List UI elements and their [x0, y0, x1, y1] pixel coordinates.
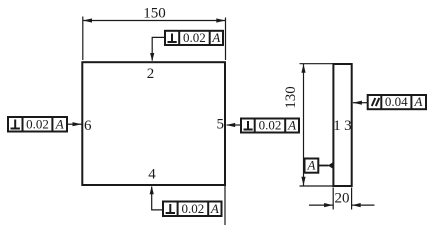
- svg-text:0.02: 0.02: [259, 118, 282, 133]
- narrow plate outline (right view): [333, 64, 351, 186]
- dimension 130 arrow bottom: [301, 177, 305, 186]
- svg-text:0.02: 0.02: [182, 201, 205, 216]
- perpendicularity symbol in FCF-left: [11, 120, 20, 129]
- svg-text:3: 3: [344, 118, 352, 134]
- svg-text:0.04: 0.04: [385, 94, 408, 109]
- parallelism symbol in FCF-parallel: [372, 98, 380, 106]
- extension line below square right edge: [224, 185, 226, 225]
- perpendicularity symbol in FCF-top: [168, 34, 177, 43]
- svg-text:A: A: [211, 30, 220, 45]
- dimension 130 top extension line: [300, 63, 334, 65]
- svg-text:5: 5: [217, 117, 225, 133]
- svg-text:A: A: [210, 201, 219, 216]
- dimension 20 right extension line: [351, 188, 353, 210]
- dimension 20 left line segment: [309, 204, 333, 206]
- dimension 130 arrow top: [301, 64, 305, 73]
- dimension 20 right arrow: [352, 203, 361, 207]
- dimension 150 extension line left: [82, 17, 84, 61]
- svg-text:A: A: [307, 158, 316, 173]
- feature control frame FCF-top (perpendicularity 0.02 A): [165, 31, 223, 45]
- leader arrow to narrow plate surface: [353, 101, 362, 105]
- dimension 130 bottom extension line: [300, 185, 334, 187]
- leader arrow to right surface: [226, 123, 235, 127]
- svg-text:A: A: [55, 117, 64, 132]
- datum feature symbol box A: [305, 159, 319, 173]
- perpendicularity symbol in FCF-right: [244, 121, 253, 130]
- svg-text:0.02: 0.02: [183, 30, 206, 45]
- leader from FCF-parallel to right surface of narrow plate: [353, 102, 368, 104]
- datum leader line: [318, 165, 328, 167]
- main square plate outline: [82, 62, 225, 185]
- feature control frame FCF-parallel (parallelism 0.04 A): [368, 95, 426, 109]
- feature control frame FCF-bottom (perpendicularity 0.02 A): [163, 202, 222, 217]
- leader from FCF-top to top surface: [152, 37, 165, 60]
- dimension 150 extension line right: [225, 18, 227, 61]
- svg-text:A: A: [287, 118, 296, 133]
- dimension 150 line: [83, 20, 226, 22]
- dimension 150 arrow left: [83, 18, 92, 22]
- svg-text:4: 4: [148, 167, 156, 183]
- dimension 20 left arrow: [324, 203, 333, 207]
- leader from FCF-right to right surface: [227, 124, 241, 126]
- svg-text:0.02: 0.02: [26, 117, 49, 132]
- svg-text:1: 1: [333, 118, 341, 134]
- svg-text:2: 2: [147, 66, 155, 82]
- dimension 20 left extension line: [332, 188, 334, 210]
- datum filled triangle on surface: [328, 163, 333, 169]
- leader arrow to left surface: [73, 122, 82, 126]
- leader arrow to top surface: [150, 53, 154, 61]
- feature control frame FCF-right (perpendicularity 0.02 A): [241, 119, 299, 133]
- svg-text:130: 130: [283, 86, 299, 109]
- leader from FCF-left to left surface: [67, 123, 82, 125]
- svg-text:20: 20: [335, 191, 350, 207]
- feature control frame FCF-left (perpendicularity 0.02 A): [8, 117, 67, 132]
- leader arrow to bottom surface: [150, 186, 154, 194]
- svg-text:6: 6: [84, 118, 92, 134]
- svg-text:A: A: [414, 94, 423, 109]
- svg-text:150: 150: [143, 6, 166, 22]
- perpendicularity symbol in FCF-bottom: [166, 204, 175, 213]
- leader from FCF-bottom to bottom surface: [152, 187, 163, 210]
- dimension 130 line: [303, 64, 305, 186]
- dimension 20 right line segment: [352, 204, 375, 206]
- dimension 150 arrow right: [216, 18, 225, 22]
